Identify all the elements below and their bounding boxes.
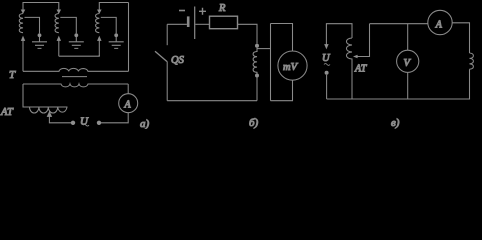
transformer T primary line with bumps [23,68,129,71]
wire unit1 down to T [22,41,24,72]
node dot output terminal left [71,121,75,125]
transformer T secondary line with bumps [23,84,128,87]
transformer unit 1 coil L1 [19,14,23,33]
ground unit 1 [32,37,47,48]
wire v) top rail to ammeter [370,23,428,25]
svg-text:mV: mV [283,62,299,73]
voltmeter V stem bottom [407,72,409,99]
label plus [199,8,206,15]
wire top rail segment B [99,3,128,10]
wire choke bottom to rail [256,78,258,101]
wire unit2 side loop [60,17,76,33]
autotransformer AT left wire [23,84,68,107]
wire unit2 down to bus [58,41,60,57]
node dot output terminal right [97,121,101,125]
label minus [179,10,185,12]
svg-text:A: A [435,20,443,31]
transformer unit 2 lower tap arrow [57,36,61,41]
ground unit 3 [109,37,124,48]
voltmeter V circle [397,50,419,72]
inductor choke coil [253,48,257,74]
resistor R box [210,16,238,29]
wire b) top left [167,23,187,25]
wire T secondary right down to ammeter [127,84,129,94]
node dot unit3 ground junction [114,33,118,37]
wire ammeter bottom to output [101,113,128,123]
arrow input terminal [325,44,329,48]
svg-text:R: R [218,3,226,14]
ammeter A2 circle [428,10,452,34]
switch QS left wire top [166,24,168,45]
wire b) bottom rail [167,100,257,102]
wire AT2 coil bottom to rail [351,62,353,99]
wire mV loop top [271,24,293,52]
wire ammeter right to frame [452,23,469,53]
ammeter A1 circle [119,94,138,113]
switch QS left wire bottom [166,61,168,100]
wire tap choke top to mV loop [257,48,271,50]
transformer unit 1 arrow tap top [21,9,25,14]
wire unit3 down to bus [98,41,100,57]
wire bus joining units 2 and 3 [59,55,100,56]
transformer unit 3 lower tap arrow [98,36,102,41]
svg-text:U: U [322,53,331,64]
wire battery to resistor [195,23,209,25]
svg-text:T: T [9,69,16,81]
wire resistor to right branch [238,24,258,44]
wire mV bottom loop [271,80,293,101]
node dot choke bottom [255,74,259,78]
node dot choke top [255,44,259,48]
transformer unit 2 arrow tap top [57,9,61,14]
svg-text:а): а) [140,118,150,129]
svg-text:AT: AT [354,64,368,75]
inductor load coil right [470,53,474,69]
wire right frame bottom [327,69,470,99]
arrow AT wiper [47,112,52,117]
transformer unit 3 arrow tap top [98,9,102,14]
svg-text:в): в) [391,117,400,129]
arrow AT2 wiper with tail [357,24,370,57]
svg-text:V: V [404,58,412,69]
svg-text:A: A [124,100,132,111]
millivoltmeter mV circle [278,51,307,80]
ground unit 2 [69,37,84,48]
wire mV loop left vertical [270,24,272,101]
transformer unit 1 lower tap arrow [21,36,25,41]
wire top rail segment A [23,3,59,10]
wire v) input top [326,24,352,47]
node dot unit1 ground junction [38,33,42,37]
battery GB long plate [194,7,196,40]
autotransformer AT winding bumps [30,107,68,113]
svg-text:QS: QS [171,55,185,66]
wire unit3 side loop [101,17,116,33]
wire output left to AT tap [49,113,71,123]
node dot input bottom [325,71,329,75]
battery GB short plate [187,16,190,27]
transformer unit 2 coil L2 [55,14,59,33]
transformer T core bar [62,76,87,78]
wire unit1 side loop [25,17,40,33]
switch QS blade [155,51,167,61]
svg-text:б): б) [249,117,259,129]
wire input down to rail [326,75,328,99]
wire right frame [128,3,130,72]
node dot unit2 ground junction [74,33,78,37]
transformer unit 3 coil L3 [96,14,100,33]
autotransformer AT2 coil [346,38,352,62]
voltmeter V stem top [407,24,409,51]
svg-text:AT: AT [0,107,14,118]
